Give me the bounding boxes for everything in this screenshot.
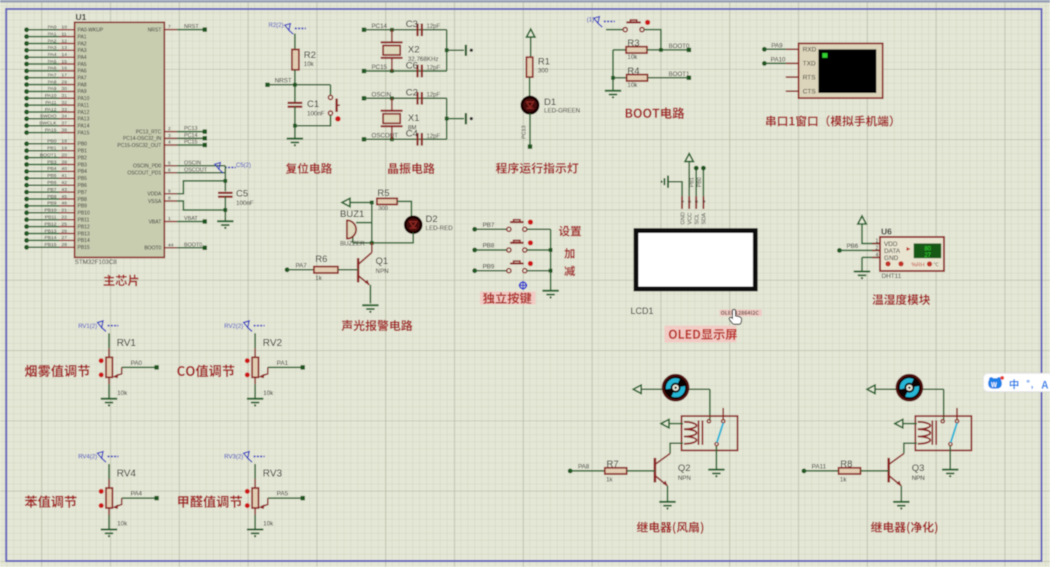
svg-text:PA14: PA14	[78, 124, 90, 130]
svg-text:21: 21	[62, 208, 68, 214]
svg-text:PB5: PB5	[47, 173, 57, 179]
svg-text:PA4: PA4	[131, 491, 143, 498]
svg-text:14: 14	[62, 52, 68, 58]
svg-text:10k: 10k	[263, 521, 274, 528]
svg-text:PA1: PA1	[78, 34, 87, 40]
svg-text:OSCOUT_PD1: OSCOUT_PD1	[127, 171, 161, 177]
svg-text:°: °	[1026, 378, 1030, 389]
svg-text:BOOT0: BOOT0	[144, 246, 161, 252]
svg-text:4: 4	[168, 140, 171, 146]
svg-text:22: 22	[62, 215, 68, 221]
svg-text:PB15: PB15	[78, 245, 90, 251]
svg-text:BOOT1: BOOT1	[40, 152, 57, 158]
svg-text:C5: C5	[236, 189, 248, 200]
svg-text:300: 300	[378, 206, 388, 212]
svg-text:300: 300	[538, 68, 549, 75]
svg-text:PB14: PB14	[78, 238, 90, 244]
svg-text:27: 27	[924, 253, 931, 259]
svg-text:OSCOUT: OSCOUT	[184, 167, 208, 173]
svg-text:U6: U6	[881, 227, 892, 237]
svg-text:PB15: PB15	[45, 242, 57, 248]
svg-text:PA2: PA2	[78, 41, 87, 47]
svg-text:R8: R8	[840, 459, 852, 470]
svg-text:LED-RED: LED-RED	[426, 225, 454, 232]
svg-text:C5(2): C5(2)	[236, 163, 251, 169]
svg-text:TXD: TXD	[803, 61, 816, 68]
svg-text:STM32F103C8: STM32F103C8	[75, 259, 118, 266]
svg-text:PB7: PB7	[78, 190, 88, 196]
svg-text:NRST: NRST	[275, 77, 292, 84]
svg-text:28: 28	[62, 242, 68, 248]
svg-text:PB6: PB6	[47, 180, 57, 186]
svg-text:12pF: 12pF	[427, 134, 441, 140]
svg-text:PA6: PA6	[78, 69, 87, 75]
svg-text:PA10: PA10	[78, 96, 90, 102]
svg-text:PB6: PB6	[78, 183, 88, 189]
svg-text:19: 19	[62, 146, 68, 152]
svg-text:100nF: 100nF	[307, 111, 325, 118]
svg-text:4: 4	[876, 253, 879, 259]
svg-text:27: 27	[62, 235, 68, 241]
svg-text:U1: U1	[76, 12, 87, 22]
svg-text:RTS: RTS	[803, 74, 816, 81]
svg-text:R2(2): R2(2)	[269, 23, 284, 29]
svg-text:C3: C3	[406, 19, 418, 30]
svg-text:15: 15	[62, 59, 68, 65]
svg-text:18: 18	[62, 139, 68, 145]
svg-text:5: 5	[168, 160, 171, 166]
svg-text:OSCOUT: OSCOUT	[372, 132, 399, 139]
svg-text:PB0: PB0	[697, 177, 703, 187]
svg-text:OSCIN_PD0: OSCIN_PD0	[133, 164, 162, 170]
svg-text:PC15-OSC32_OUT: PC15-OSC32_OUT	[117, 143, 161, 149]
svg-text:PA13: PA13	[78, 117, 90, 123]
svg-text:9: 9	[168, 188, 171, 194]
svg-text:37: 37	[62, 121, 68, 127]
svg-text:PA4: PA4	[48, 52, 57, 58]
svg-text:NPN: NPN	[376, 268, 389, 275]
svg-text:PA10: PA10	[771, 56, 786, 63]
svg-text:NPN: NPN	[678, 475, 691, 482]
svg-text:PA0: PA0	[48, 25, 57, 31]
svg-text:C1: C1	[307, 99, 319, 110]
svg-text:NRST: NRST	[148, 27, 162, 33]
svg-text:RV2(2): RV2(2)	[224, 324, 243, 330]
svg-text:VDDA: VDDA	[147, 192, 162, 198]
svg-text:12: 12	[62, 38, 68, 44]
svg-text:PA7: PA7	[48, 73, 57, 79]
svg-text:PB9: PB9	[483, 263, 495, 270]
svg-text:10k: 10k	[263, 390, 274, 397]
svg-text:11: 11	[62, 31, 67, 37]
svg-text:BUZZER: BUZZER	[340, 241, 365, 248]
svg-text:45: 45	[62, 194, 68, 200]
svg-text:R1: R1	[538, 57, 550, 68]
svg-text:OSCIN: OSCIN	[184, 160, 201, 166]
svg-text:PB0: PB0	[78, 142, 88, 148]
svg-text:8: 8	[168, 196, 171, 202]
svg-text:PB1: PB1	[47, 146, 57, 152]
svg-text:1k: 1k	[840, 476, 847, 483]
svg-text:LED-GREEN: LED-GREEN	[544, 108, 580, 115]
svg-text:34: 34	[62, 114, 68, 120]
svg-text:Q1: Q1	[376, 256, 389, 267]
svg-text:PA1: PA1	[277, 360, 289, 367]
svg-text:PC14: PC14	[372, 23, 388, 30]
svg-text:NRST: NRST	[184, 24, 199, 30]
svg-text:RV3(2): RV3(2)	[224, 455, 243, 461]
svg-text:10: 10	[62, 25, 68, 31]
svg-text:10k: 10k	[117, 521, 128, 528]
svg-text:SDA: SDA	[702, 213, 708, 225]
svg-text:16: 16	[62, 66, 68, 72]
svg-text:PB11: PB11	[45, 215, 57, 221]
svg-text:PB2: PB2	[78, 155, 88, 161]
svg-text:13: 13	[62, 45, 68, 51]
svg-text:PA7: PA7	[296, 262, 308, 269]
svg-text:,: ,	[1031, 380, 1034, 391]
svg-text:PB4: PB4	[47, 166, 57, 172]
svg-text:BUZ1: BUZ1	[340, 209, 364, 220]
svg-text:RV4: RV4	[117, 469, 137, 480]
svg-text:PA5: PA5	[277, 491, 289, 498]
svg-text:R5: R5	[377, 188, 389, 199]
svg-text:PA3: PA3	[48, 45, 57, 51]
svg-text:D1: D1	[544, 97, 556, 108]
svg-text:PA5: PA5	[48, 59, 57, 65]
svg-text:PB14: PB14	[45, 235, 57, 241]
svg-text:PA15: PA15	[78, 130, 90, 136]
svg-text:PC13: PC13	[184, 126, 198, 132]
svg-text:PB8: PB8	[483, 243, 495, 250]
svg-text:SCL: SCL	[694, 214, 700, 225]
svg-text:SWCLK: SWCLK	[39, 121, 57, 127]
svg-text:D2: D2	[426, 214, 438, 225]
svg-text:46: 46	[62, 201, 68, 207]
svg-text:25: 25	[62, 221, 68, 227]
svg-text:BOOT0: BOOT0	[184, 242, 202, 248]
svg-text:PC15: PC15	[372, 64, 388, 71]
svg-text:PA15: PA15	[45, 127, 57, 133]
svg-text:PB10: PB10	[45, 208, 57, 214]
svg-text:PA0: PA0	[131, 360, 143, 367]
svg-text:PA12: PA12	[45, 107, 57, 113]
svg-text:26: 26	[62, 228, 68, 234]
svg-text:R2: R2	[304, 50, 316, 61]
svg-text:PA11: PA11	[812, 463, 827, 470]
svg-text:PB9: PB9	[47, 201, 57, 207]
svg-text:PA12: PA12	[78, 110, 90, 116]
svg-text:C2: C2	[406, 87, 418, 98]
svg-text:PB13: PB13	[45, 228, 57, 234]
svg-text:PA2: PA2	[48, 38, 57, 44]
svg-text:R6: R6	[315, 254, 327, 265]
svg-text:80: 80	[924, 246, 931, 252]
svg-text:10k: 10k	[627, 82, 638, 89]
svg-text:2: 2	[168, 126, 171, 132]
svg-text:29: 29	[62, 79, 68, 85]
svg-text:PA4: PA4	[78, 55, 87, 61]
svg-text:PC13_RTC: PC13_RTC	[136, 129, 162, 135]
svg-text:PA0-WKUP: PA0-WKUP	[78, 28, 104, 34]
svg-text:PB13: PB13	[78, 231, 90, 237]
svg-text:PC13: PC13	[522, 126, 528, 140]
svg-text:40: 40	[62, 166, 68, 172]
svg-text:1k: 1k	[315, 275, 322, 282]
svg-text:X1: X1	[408, 113, 420, 124]
svg-text:PB8: PB8	[47, 194, 57, 200]
svg-text:10k: 10k	[304, 61, 315, 68]
svg-text:PB7: PB7	[483, 222, 495, 229]
svg-text:30: 30	[62, 86, 68, 92]
svg-text:42: 42	[62, 180, 68, 186]
svg-text:PB12: PB12	[78, 224, 90, 230]
svg-text:VCC: VCC	[687, 213, 693, 225]
svg-text:NPN: NPN	[912, 475, 925, 482]
svg-text:BOOT0: BOOT0	[669, 43, 691, 50]
svg-text:X2: X2	[408, 45, 420, 56]
svg-text:PB3: PB3	[78, 162, 88, 168]
svg-text:PB7: PB7	[47, 187, 57, 193]
svg-text:PC14-OSC32_IN: PC14-OSC32_IN	[123, 136, 162, 142]
svg-text:%RH: %RH	[912, 262, 925, 268]
svg-text:PC14: PC14	[184, 133, 198, 139]
svg-text:100nF: 100nF	[236, 200, 254, 207]
svg-text:RV1: RV1	[117, 338, 137, 349]
svg-text:2: 2	[876, 246, 879, 252]
svg-text:OSCIN: OSCIN	[372, 91, 392, 98]
svg-text:3: 3	[168, 133, 171, 139]
svg-text:PA5: PA5	[78, 62, 87, 68]
svg-text:1: 1	[876, 239, 879, 245]
svg-text:PA9: PA9	[48, 86, 57, 92]
svg-text:R3: R3	[627, 38, 639, 49]
svg-text:7: 7	[168, 24, 171, 30]
svg-text:39: 39	[62, 159, 68, 165]
svg-text:SWDIO: SWDIO	[40, 114, 57, 120]
svg-text:DATA: DATA	[884, 248, 901, 255]
svg-text:PB3: PB3	[47, 159, 57, 165]
svg-text:PB5: PB5	[78, 176, 88, 182]
svg-text:PB6: PB6	[847, 243, 859, 250]
svg-text:RV4(2): RV4(2)	[78, 455, 97, 461]
svg-text:PA1: PA1	[48, 31, 57, 37]
svg-text:PB0: PB0	[47, 139, 57, 145]
svg-text:10k: 10k	[627, 54, 638, 61]
svg-text:R7: R7	[607, 459, 619, 470]
svg-text:PB10: PB10	[78, 211, 90, 217]
svg-text:DHT11: DHT11	[882, 273, 902, 280]
svg-text:PB12: PB12	[45, 221, 57, 227]
svg-text:(1): (1)	[587, 18, 594, 24]
svg-text:PB9: PB9	[78, 204, 88, 210]
svg-text:R4: R4	[627, 66, 639, 77]
svg-text:PC15: PC15	[184, 140, 198, 146]
svg-text:17: 17	[62, 73, 68, 79]
svg-text:1k: 1k	[606, 476, 613, 483]
svg-text:RV2: RV2	[263, 338, 283, 349]
svg-text:RV3: RV3	[263, 469, 283, 480]
svg-text:CTS: CTS	[803, 88, 816, 95]
svg-text:LCD1: LCD1	[631, 306, 654, 316]
svg-text:43: 43	[62, 187, 68, 193]
svg-text:RXD: RXD	[803, 47, 817, 54]
svg-text:PA7: PA7	[78, 76, 87, 82]
svg-text:12pF: 12pF	[427, 66, 441, 72]
svg-text:BOOT1: BOOT1	[669, 71, 691, 78]
svg-text:GND: GND	[884, 255, 899, 262]
svg-text:PA10: PA10	[45, 93, 57, 99]
svg-text:PA8: PA8	[48, 79, 57, 85]
svg-text:PB4: PB4	[78, 169, 88, 175]
svg-text:PA11: PA11	[78, 103, 90, 109]
svg-text:12pF: 12pF	[427, 93, 441, 99]
svg-text:GND: GND	[680, 212, 686, 224]
svg-text:PB11: PB11	[78, 218, 90, 224]
svg-text:41: 41	[62, 173, 68, 179]
svg-text:VBAT: VBAT	[149, 219, 162, 225]
svg-text:44: 44	[168, 242, 174, 248]
svg-text:VBAT: VBAT	[184, 216, 198, 222]
svg-text:C6: C6	[406, 60, 418, 71]
svg-text:PB1: PB1	[690, 177, 696, 187]
svg-text:33: 33	[62, 107, 68, 113]
svg-text:PA9: PA9	[78, 89, 87, 95]
svg-text:PA3: PA3	[78, 48, 87, 54]
svg-text:20: 20	[62, 152, 68, 158]
svg-text:12pF: 12pF	[427, 24, 441, 30]
svg-text:PA6: PA6	[48, 66, 57, 72]
svg-text:C4: C4	[406, 128, 418, 139]
svg-text:32: 32	[62, 100, 68, 106]
svg-text:Q2: Q2	[678, 463, 691, 474]
svg-text:6: 6	[168, 167, 171, 173]
svg-text:38: 38	[62, 127, 68, 133]
svg-text:PB8: PB8	[78, 197, 88, 203]
svg-text:10k: 10k	[117, 390, 128, 397]
svg-text:1: 1	[168, 216, 171, 222]
svg-text:Q3: Q3	[912, 463, 925, 474]
svg-text:RV1(2): RV1(2)	[78, 324, 97, 330]
svg-text:PA11: PA11	[45, 100, 57, 106]
svg-text:PA9: PA9	[771, 42, 783, 49]
svg-text:VSSA: VSSA	[148, 199, 162, 205]
svg-text:PA8: PA8	[578, 463, 590, 470]
svg-text:PA8: PA8	[78, 82, 87, 88]
svg-text:PB1: PB1	[78, 149, 88, 155]
svg-text:31: 31	[62, 93, 68, 99]
